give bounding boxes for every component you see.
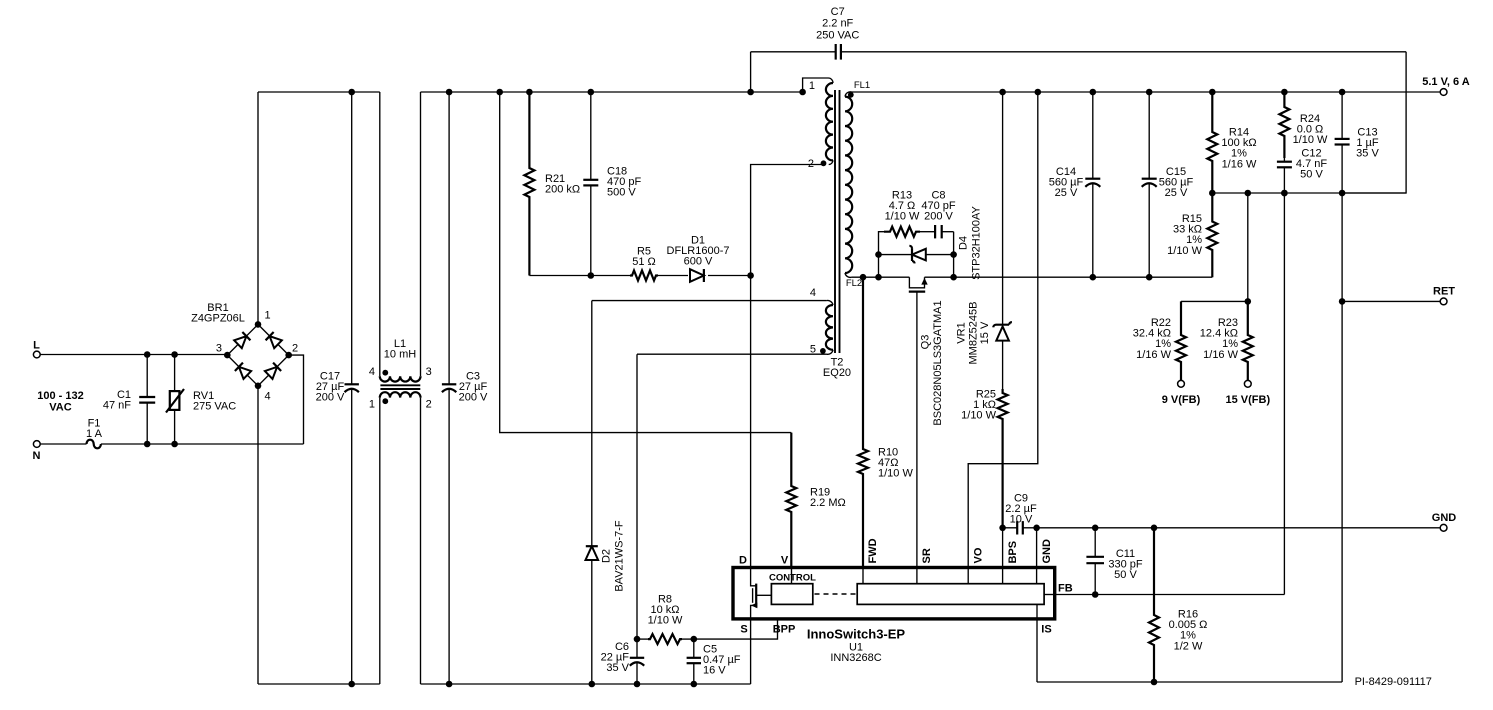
svg-text:GND: GND <box>1041 539 1053 564</box>
svg-text:1/10 W: 1/10 W <box>1293 134 1328 146</box>
svg-text:3: 3 <box>216 343 222 355</box>
svg-text:100 - 132: 100 - 132 <box>37 390 83 402</box>
wire divider to FB terminals <box>1181 193 1251 305</box>
wire IS pin down <box>1036 619 1038 682</box>
svg-text:2: 2 <box>808 158 814 170</box>
svg-text:1/2 W: 1/2 W <box>1174 640 1203 652</box>
resistor R14 100 kOhm 1% 1/16 W <box>1207 89 1257 197</box>
svg-text:35 V: 35 V <box>1356 148 1379 160</box>
svg-text:1: 1 <box>809 80 815 92</box>
svg-text:1/16 W: 1/16 W <box>1222 158 1257 170</box>
svg-text:1/16 W: 1/16 W <box>1136 349 1171 361</box>
label AC input voltage <box>37 390 83 414</box>
svg-text:4: 4 <box>265 391 271 403</box>
svg-text:1/10 W: 1/10 W <box>885 211 920 223</box>
svg-text:D: D <box>739 555 747 567</box>
svg-text:200 V: 200 V <box>316 392 345 404</box>
svg-text:2.2 MΩ: 2.2 MΩ <box>810 497 846 509</box>
svg-text:25 V: 25 V <box>1165 187 1188 199</box>
svg-text:GND: GND <box>1432 512 1457 524</box>
svg-text:10 V: 10 V <box>1010 514 1033 526</box>
svg-text:SR: SR <box>921 548 933 563</box>
svg-text:25 V: 25 V <box>1055 187 1078 199</box>
diode D1 DFLR1600-7 600 V <box>667 234 730 282</box>
svg-text:RET: RET <box>1433 286 1455 298</box>
wire RET rail <box>1339 193 1440 682</box>
resistor R21 200 kOhm <box>524 89 580 276</box>
svg-text:2.2 nF: 2.2 nF <box>822 18 853 30</box>
wire bridge pin 2 to N line <box>289 355 304 444</box>
wire feedback node line <box>1212 190 1406 197</box>
wire N line <box>101 443 304 445</box>
resistor R22 32.4 kOhm 1% 1/16 W <box>1133 301 1186 387</box>
output capacitor C14 560 uF 25 V <box>1049 89 1101 278</box>
svg-text:MM8Z5245B: MM8Z5245B <box>968 302 980 365</box>
svg-text:FL2: FL2 <box>846 278 862 289</box>
svg-text:9 V(FB): 9 V(FB) <box>1162 394 1201 406</box>
capacitor C12 4.7 nF 50 V <box>1277 148 1327 197</box>
resistor R19 2.2 MOhm <box>496 89 845 568</box>
inductor L1 10 mH common-mode choke <box>369 92 432 684</box>
resistor R23 12.4 kOhm 1% 1/16 W <box>1200 301 1253 387</box>
svg-text:BAV21WS-7-F: BAV21WS-7-F <box>614 520 626 592</box>
transformer T2 secondary winding FL1-FL2 <box>845 80 870 289</box>
transformer T2 bias winding pins 4-5 <box>810 287 833 356</box>
wire bias winding pin 4 line <box>592 301 827 546</box>
svg-text:10 mH: 10 mH <box>384 349 416 361</box>
wire top DC+ bus <box>258 91 803 93</box>
svg-text:1/10 W: 1/10 W <box>1167 245 1202 257</box>
capacitor C7 2.2 nF 250 VAC <box>747 6 1406 95</box>
wire C7 return to RET node <box>1342 52 1406 193</box>
svg-text:Z4GPZ06L: Z4GPZ06L <box>191 313 245 325</box>
svg-text:2: 2 <box>292 343 298 355</box>
svg-text:5.1 V, 6 A: 5.1 V, 6 A <box>1422 76 1470 88</box>
wire GND pin <box>1036 528 1038 568</box>
svg-text:47 nF: 47 nF <box>103 400 131 412</box>
svg-text:CONTROL: CONTROL <box>769 573 816 584</box>
svg-text:35 V: 35 V <box>606 662 629 674</box>
svg-text:INN3268C: INN3268C <box>830 652 881 664</box>
capacitor C13 1 uF 35 V <box>1335 89 1380 197</box>
svg-text:BPP: BPP <box>773 624 796 636</box>
IC U1 InnoSwitch3-EP INN3268C <box>733 538 1073 664</box>
svg-text:50 V: 50 V <box>1300 169 1323 181</box>
diode D2 BAV21WS-7-F <box>586 520 626 687</box>
svg-text:1/16 W: 1/16 W <box>1203 349 1238 361</box>
wire VO sense line <box>968 89 1041 568</box>
wire secondary ground bus <box>1037 525 1441 532</box>
diode D4 STP32H100AY (SR schottky) <box>875 205 982 279</box>
svg-text:V: V <box>781 555 789 567</box>
svg-text:EQ20: EQ20 <box>823 367 851 379</box>
svg-text:200 kΩ: 200 kΩ <box>545 184 580 196</box>
svg-text:N: N <box>33 450 41 462</box>
resistor R5 51 Ohm <box>630 246 658 281</box>
svg-text:1 A: 1 A <box>86 428 103 440</box>
capacitor C1 47 nF <box>103 351 155 447</box>
svg-text:250 VAC: 250 VAC <box>816 29 859 41</box>
svg-text:500 V: 500 V <box>607 187 636 199</box>
wire L line <box>40 354 226 356</box>
capacitor C18 470 pF 500 V <box>583 89 641 279</box>
wire drain net to T2 pin 2 and U1 D pin <box>747 165 824 568</box>
wire BPS pin <box>1002 528 1004 568</box>
bridge rectifier BR1 Z4GPZ06L <box>191 302 298 403</box>
wire clamp line <box>529 275 750 277</box>
capacitor C9 2.2 uF 10 V <box>999 493 1040 535</box>
snubber resistor R13 4.7 Ohm 1/10 W <box>879 190 921 278</box>
terminal GND <box>1432 512 1457 531</box>
svg-text:VAC: VAC <box>49 402 71 414</box>
wire FB line <box>1055 190 1288 595</box>
svg-text:1: 1 <box>265 310 271 322</box>
terminal L (AC line input) <box>33 340 40 358</box>
svg-text:1/10 W: 1/10 W <box>961 410 996 422</box>
terminal 9 V(FB) <box>1162 394 1201 406</box>
wire BPP link <box>694 619 778 639</box>
svg-text:600 V: 600 V <box>684 256 713 268</box>
transformer T2 EQ20 core <box>823 90 851 379</box>
capacitor C11 330 pF 50 V <box>1086 528 1143 598</box>
svg-text:S: S <box>740 624 747 636</box>
capacitor C3 27 uF 200 V <box>442 89 488 688</box>
svg-text:50 V: 50 V <box>1114 569 1137 581</box>
terminal RET <box>1433 286 1455 305</box>
svg-text:275 VAC: 275 VAC <box>193 401 236 413</box>
snubber capacitor C8 470 pF 200 V <box>920 190 956 255</box>
resistor R10 47 Ohm 1/10 W to FWD pin <box>858 277 913 567</box>
wire bottom DC- bus <box>258 683 751 685</box>
svg-text:Q3: Q3 <box>920 335 932 350</box>
capacitor C6 22 uF 35 V <box>601 639 645 687</box>
svg-text:VR1: VR1 <box>956 322 968 343</box>
svg-text:C7: C7 <box>831 6 845 18</box>
svg-text:FWD: FWD <box>867 538 879 563</box>
wire 5.1 V output bus FL1 <box>852 91 1440 93</box>
svg-text:2: 2 <box>426 399 432 411</box>
wire IS sense line <box>1037 681 1342 683</box>
resistor R8 10 kOhm 1/10 W <box>634 594 697 645</box>
svg-text:BSC028N05LS3GATMA1: BSC028N05LS3GATMA1 <box>932 300 944 425</box>
svg-text:VO: VO <box>973 547 985 563</box>
resistor R16 0.005 Ohm 1% 1/2 W shunt <box>1149 528 1207 686</box>
svg-text:200 V: 200 V <box>459 392 488 404</box>
transformer T2 primary winding pins 1-2 <box>799 78 833 170</box>
svg-text:FL1: FL1 <box>854 80 870 91</box>
wire bias winding pin 5 line <box>637 354 826 639</box>
svg-text:1/10 W: 1/10 W <box>878 468 913 480</box>
svg-text:51 Ω: 51 Ω <box>632 256 656 268</box>
wire bridge pin 1 to DC+ bus <box>257 92 259 324</box>
svg-text:15 V(FB): 15 V(FB) <box>1225 394 1270 406</box>
svg-text:BPS: BPS <box>1007 541 1019 564</box>
svg-text:3: 3 <box>426 366 432 378</box>
terminal N (AC neutral input) <box>33 441 41 462</box>
svg-text:16 V: 16 V <box>703 665 726 677</box>
svg-text:4: 4 <box>810 287 816 299</box>
svg-text:1: 1 <box>369 399 375 411</box>
svg-text:4: 4 <box>369 366 375 378</box>
wire FL2 line <box>852 274 1213 281</box>
svg-text:D2: D2 <box>601 549 613 563</box>
svg-text:200 V: 200 V <box>924 211 953 223</box>
wire bridge pin 4 to DC- bus <box>257 386 259 684</box>
svg-text:InnoSwitch3-EP: InnoSwitch3-EP <box>807 627 906 642</box>
wire S pin to DC- bus <box>750 619 752 684</box>
terminal 15 V(FB) <box>1225 394 1270 406</box>
SR FET Q3 BSC028N05LS3GATMA1 <box>909 277 944 567</box>
svg-text:FB: FB <box>1058 583 1073 595</box>
output capacitor C15 560 uF 25 V <box>1142 89 1194 278</box>
fuse F1 1 A <box>40 418 102 449</box>
resistor R25 1 kOhm 1/10 W <box>961 389 1007 528</box>
varistor RV1 275 VAC <box>166 351 236 447</box>
svg-text:D4: D4 <box>958 236 970 250</box>
svg-text:L: L <box>33 340 40 352</box>
label drawing number PI-8429-091117 <box>1355 676 1432 688</box>
resistor R24 0.0 Ohm 1/10 W <box>1279 89 1328 158</box>
capacitor C17 27 uF 200 V <box>316 89 359 688</box>
zener VR1 MM8Z5245B 15 V <box>956 89 1012 389</box>
svg-text:IS: IS <box>1041 624 1051 636</box>
terminal 5.1 V, 6 A output <box>1422 76 1470 95</box>
resistor R15 33 kOhm 1% 1/10 W <box>1167 193 1217 277</box>
capacitor C5 0.47 uF 16 V <box>687 639 741 687</box>
svg-text:PI-8429-091117: PI-8429-091117 <box>1355 676 1432 688</box>
svg-text:15 V: 15 V <box>979 321 991 344</box>
svg-text:1/10 W: 1/10 W <box>648 615 683 627</box>
svg-text:STP32H100AY: STP32H100AY <box>971 205 983 279</box>
